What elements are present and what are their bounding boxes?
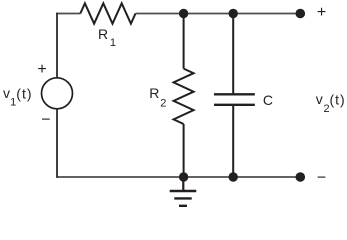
label R2	[149, 85, 166, 109]
svg-text:v: v	[316, 91, 323, 107]
wire top-left segment	[57, 13, 80, 15]
svg-text:R: R	[149, 85, 159, 101]
label v1(t)	[3, 85, 33, 108]
wire C top lead	[232, 14, 234, 95]
svg-text:−: −	[41, 111, 50, 128]
capacitor C	[214, 94, 255, 105]
wire C bottom lead	[232, 105, 234, 177]
wire left vertical lower	[56, 109, 58, 178]
svg-text:(t): (t)	[330, 91, 346, 107]
svg-text:C: C	[263, 92, 273, 108]
ground	[170, 177, 197, 206]
label R1	[98, 26, 116, 49]
resistor R2	[174, 69, 194, 124]
label v2(t)	[316, 91, 346, 115]
svg-text:+: +	[37, 61, 46, 78]
svg-text:v: v	[3, 85, 10, 101]
svg-text:−: −	[317, 170, 326, 187]
node output minus terminal	[296, 172, 306, 182]
svg-text:+: +	[317, 4, 326, 21]
svg-text:1: 1	[10, 97, 16, 109]
wire R2 bottom lead	[183, 124, 185, 177]
svg-text:R: R	[98, 26, 108, 42]
wire bottom segment	[57, 176, 300, 178]
resistor R1	[80, 3, 135, 23]
wire top-right segment	[136, 13, 301, 15]
node top C junction	[229, 9, 238, 18]
svg-text:1: 1	[110, 37, 116, 49]
wire left vertical upper	[56, 13, 58, 78]
node bottom R2 junction	[179, 172, 188, 181]
source V1	[42, 78, 73, 109]
node bottom C junction	[229, 172, 238, 181]
svg-text:2: 2	[160, 97, 166, 109]
node top R2 junction	[179, 9, 188, 18]
svg-text:(t): (t)	[16, 85, 32, 101]
wire R2 top lead	[183, 14, 185, 69]
node output plus terminal	[296, 9, 306, 19]
